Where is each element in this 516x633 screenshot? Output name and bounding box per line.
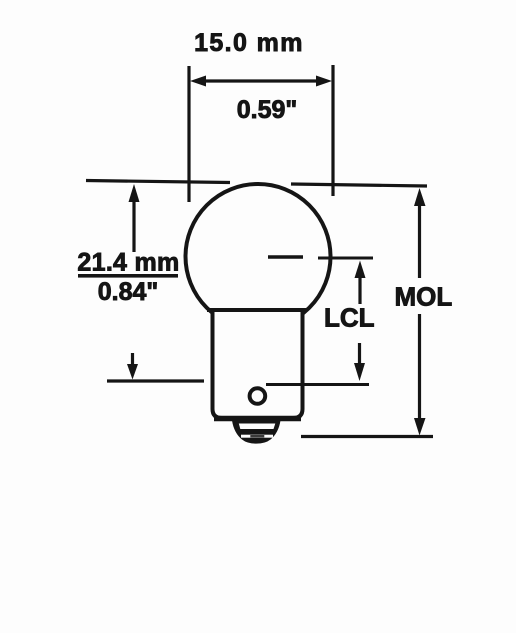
svg-text:0.84": 0.84"	[98, 278, 159, 306]
svg-text:15.0 mm: 15.0 mm	[194, 29, 304, 57]
svg-text:LCL: LCL	[324, 303, 375, 333]
svg-text:21.4 mm: 21.4 mm	[77, 249, 179, 277]
svg-text:0.59": 0.59"	[237, 96, 298, 124]
svg-text:MOL: MOL	[395, 282, 453, 312]
